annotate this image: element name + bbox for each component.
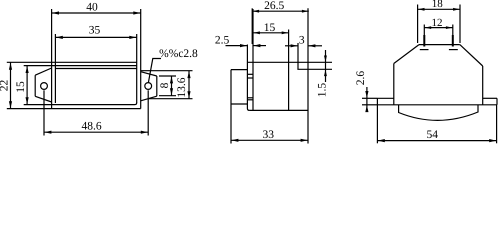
step bottom edge [231, 103, 247, 105]
svg-text:18: 18 [432, 0, 444, 10]
dimension 12 dim line [424, 27, 453, 29]
left hole extension line for 48.6 [43, 90, 45, 135]
dimension 54 right arrow [489, 139, 496, 142]
svg-text:35: 35 [89, 25, 101, 37]
right flange right edge [496, 98, 498, 105]
dimension 18 left arrow [418, 8, 425, 11]
outer body right side [140, 9, 142, 109]
2.6 top extension [362, 97, 377, 99]
bracket second edge / 15 extension [24, 65, 137, 67]
cap left slant [394, 45, 419, 64]
svg-text:12: 12 [432, 17, 443, 29]
dimension 13.6 dim line [188, 71, 190, 99]
base plate bottom / 22 extension bottom [7, 108, 141, 110]
left ear hole [41, 83, 48, 90]
svg-text:3: 3 [299, 35, 305, 47]
dimension 13.6 top arrow [187, 71, 190, 78]
back face / 26.5 3 33 extension [307, 8, 309, 143]
dimension 3 right arrow (pointing left) [308, 44, 315, 47]
13.6 top extension [141, 70, 193, 72]
body right side [482, 66, 484, 105]
54 right extension [496, 105, 498, 144]
step top edge [231, 69, 247, 71]
dimension 2.6 top arrow (pointing down) [365, 91, 368, 98]
dimension 54 left arrow [378, 139, 385, 142]
dimension 1.5 bottom arrow (pointing up) [324, 70, 327, 77]
left ear bottom slant [35, 96, 51, 102]
svg-text:15: 15 [264, 22, 276, 34]
left flange top [377, 97, 393, 99]
pin strip front edge [247, 45, 249, 111]
dimension 2.5 dim line left part [226, 45, 248, 47]
right pin base dash [449, 49, 458, 51]
bottom edge [377, 104, 497, 106]
body front face / 2.5 and 26.5 extension [252, 9, 254, 110]
dimension 33 right arrow [301, 139, 308, 142]
dimension 22 bottom arrow [9, 101, 12, 108]
dimension 1.5 dim line [325, 50, 327, 82]
dimension 40 dim line / top edge [52, 12, 141, 14]
svg-text:40: 40 [86, 2, 98, 14]
dimension 12 left arrow [425, 26, 432, 29]
svg-text:2.6: 2.6 [355, 71, 367, 86]
13.6 bottom extension [148, 98, 193, 100]
dimension 15 top arrow [26, 66, 29, 73]
inner body left side [54, 34, 56, 103]
right flange top [483, 97, 497, 99]
body bottom edge [249, 109, 307, 111]
svg-text:22: 22 [0, 80, 11, 92]
lower pin divider 2 [247, 99, 253, 101]
dimension 3 dim line right tail [308, 45, 322, 47]
dimension 22 top arrow [9, 63, 12, 70]
8 bottom extension [159, 95, 176, 97]
dimension 22 dim line [10, 62, 12, 108]
dimension 26.5 dim line [252, 10, 309, 12]
svg-text:1.5: 1.5 [316, 83, 328, 98]
outer body left side [51, 9, 53, 109]
54 left extension [376, 105, 378, 144]
svg-text:26.5: 26.5 [264, 0, 284, 12]
dimension 48.6 dim line [44, 131, 148, 133]
right ear bottom slant [141, 96, 157, 101]
right ear hole [145, 83, 152, 90]
dimension 35 right arrow [129, 36, 136, 39]
dimension 26.5 right arrow [302, 10, 309, 13]
base bottom edge / 15 extension bottom [24, 103, 137, 105]
upper pin divider 1 [247, 73, 253, 75]
dimension 33 left arrow [231, 139, 238, 142]
svg-text:13.6: 13.6 [176, 77, 188, 97]
2.6 bottom extension [362, 104, 377, 106]
svg-text:54: 54 [427, 129, 439, 141]
dimension 2.6 bottom arrow (pointing up) [365, 105, 368, 112]
right ear right edge [156, 76, 158, 96]
12 left extension [423, 25, 425, 36]
dimension 35 left arrow [56, 36, 63, 39]
cap top edge [419, 44, 460, 46]
left ear top slant [35, 68, 51, 75]
dimension 54 dim line [377, 140, 496, 142]
body rear face / 15 extension [288, 30, 290, 111]
dimension 1.5 top arrow (pointing down) [324, 56, 327, 63]
dimension 2.6 dim line [366, 87, 368, 112]
svg-text:8: 8 [159, 82, 171, 88]
left pin base dash [420, 49, 429, 51]
notch edge / 3 extension [297, 43, 299, 69]
svg-text:15: 15 [15, 81, 27, 93]
dimension 18 dim line [418, 8, 460, 10]
dimension 8 top arrow [170, 76, 173, 83]
dimension 48.6 left arrow [44, 131, 51, 134]
bracket top edge / 22 extension [7, 61, 137, 63]
dimension 48.6 right arrow [141, 131, 148, 134]
left ear left edge [34, 75, 36, 96]
svg-text:33: 33 [263, 129, 275, 141]
33 left extension [230, 104, 232, 144]
right pin [452, 35, 454, 47]
right ear top slant [141, 72, 157, 76]
lower pin divider 1 [247, 97, 253, 99]
left pin [423, 35, 425, 47]
dimension 15 bottom arrow [26, 97, 29, 104]
dimension 8 dim line [171, 76, 173, 96]
svg-text:%%c2.8: %%c2.8 [159, 48, 198, 60]
svg-text:48.6: 48.6 [81, 121, 101, 133]
dimension 15 (middle) dim line [253, 32, 289, 34]
body left side [393, 64, 395, 105]
dimension 33 dim line [231, 139, 308, 141]
dimension 3 dim line left tail [285, 45, 298, 47]
dimension 15 (middle) right arrow [282, 31, 289, 34]
cap right slant [460, 45, 483, 66]
upper pin divider 2 [247, 77, 253, 79]
18 left extension [417, 5, 419, 44]
dimension 40 left arrow [52, 11, 59, 14]
dimension 26.5 left arrow [253, 10, 260, 13]
notch bottom edge / 1.5 bottom extension [297, 68, 332, 70]
svg-text:2.5: 2.5 [215, 35, 230, 47]
12 right extension [452, 25, 454, 36]
dimension 40 right arrow [133, 11, 140, 14]
dimension 3 left arrow (pointing right) [291, 44, 298, 47]
dimension 15 (middle) left arrow [253, 31, 260, 34]
dimension 2.5 left arrow (pointing right) [240, 44, 247, 47]
left flange left edge [376, 98, 378, 105]
right hole extension line for 48.6 [147, 90, 149, 135]
18 right extension [459, 5, 461, 44]
dimension 18 right arrow [453, 8, 460, 11]
dimension 13.6 bottom arrow [187, 91, 190, 98]
base top edge [55, 68, 136, 70]
step left edge [230, 70, 232, 104]
inner body right side [136, 34, 138, 103]
dimension 12 right arrow [446, 26, 453, 29]
hole label leader line [148, 59, 161, 83]
dimension 15 dim line [26, 66, 28, 105]
dimension 2.5 right arrow (pointing left) [253, 44, 260, 47]
8 top extension [159, 75, 176, 77]
dimension 2.5 dim line right tail [253, 45, 266, 47]
dimension 8 bottom arrow [170, 88, 173, 95]
dimension 35 dim line [55, 36, 136, 38]
bottom skirt curve [399, 105, 478, 121]
body top edge / 1.5 top extension [247, 61, 332, 63]
